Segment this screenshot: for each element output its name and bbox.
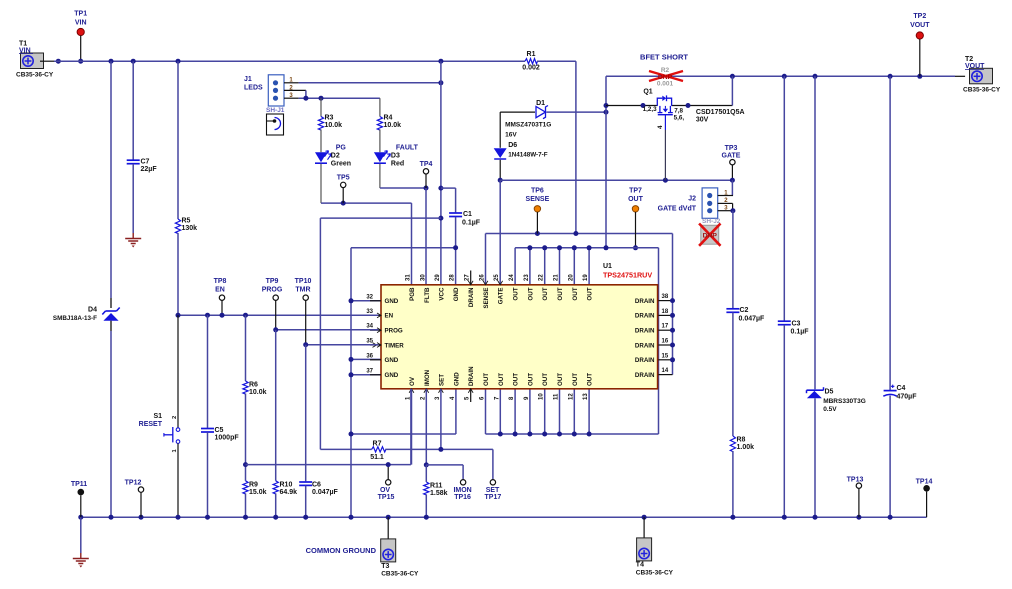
svg-text:D2: D2 xyxy=(331,153,340,160)
wire Q1 right up to VOUT xyxy=(731,76,733,105)
svg-text:J2: J2 xyxy=(688,196,696,203)
svg-text:TP10: TP10 xyxy=(295,278,312,285)
svg-text:CB35-36-CY: CB35-36-CY xyxy=(636,570,674,577)
junction DRAIN bus pin17 xyxy=(670,328,675,333)
svg-text:T4: T4 xyxy=(636,562,644,569)
svg-text:12: 12 xyxy=(568,393,574,400)
testpoint TP2 xyxy=(916,32,923,39)
junction VOUT-C4 xyxy=(888,74,893,79)
wire GATE row xyxy=(500,179,732,181)
arrow pin35 xyxy=(377,343,381,348)
svg-text:DRAIN: DRAIN xyxy=(635,298,655,305)
resistor R9 xyxy=(243,481,248,494)
svg-text:22µF: 22µF xyxy=(141,166,158,173)
testpoint TP15 xyxy=(386,480,391,485)
svg-text:33: 33 xyxy=(366,309,373,315)
transistor Q1 CSD17501Q5A xyxy=(657,98,671,106)
junction EN-C5 xyxy=(205,313,210,318)
junction T1-rail xyxy=(56,59,61,64)
svg-text:470µF: 470µF xyxy=(897,394,918,401)
svg-text:10: 10 xyxy=(539,393,545,400)
junction bottom rail x351 xyxy=(349,515,354,520)
gnd stub pin37 xyxy=(370,374,381,376)
svg-text:MMSZ4703T1G: MMSZ4703T1G xyxy=(505,122,551,129)
svg-text:C4: C4 xyxy=(897,385,906,392)
wire GATE pin25 column xyxy=(499,180,501,285)
wire VCC to R7 branch xyxy=(320,217,441,219)
svg-text:GATE: GATE xyxy=(498,288,505,305)
svg-text:DRAIN: DRAIN xyxy=(635,357,655,364)
J2 pin2 lead xyxy=(718,202,733,204)
arrow pin33 xyxy=(377,313,381,318)
junction bottom rail x80.8 xyxy=(78,515,83,520)
svg-text:37: 37 xyxy=(366,368,373,374)
svg-text:13: 13 xyxy=(583,393,589,400)
capacitor C3 xyxy=(778,320,791,322)
junction TP15-OV xyxy=(386,462,391,467)
svg-text:TPS24751RUV: TPS24751RUV xyxy=(603,271,652,280)
diode D5 MBRS330T3G xyxy=(807,389,824,391)
wire D1 row left xyxy=(500,111,535,113)
J1 pin dots xyxy=(273,80,278,85)
testpoint TP10 xyxy=(303,295,308,300)
wire SET pin3 column xyxy=(440,389,442,450)
junction bottom rail x245.5 xyxy=(243,515,248,520)
svg-text:15.0k: 15.0k xyxy=(249,489,267,496)
arrow pin34 xyxy=(377,328,381,333)
svg-text:GND: GND xyxy=(385,357,399,364)
wire SENSE row xyxy=(486,233,673,235)
J1 pin1 lead xyxy=(284,82,299,84)
testpoint TP13 xyxy=(856,483,861,488)
svg-text:27: 27 xyxy=(465,274,471,281)
wire C3 column xyxy=(783,76,785,320)
junction bottom rail x858.9 xyxy=(856,515,861,520)
wire J1 pin3 row xyxy=(299,97,380,99)
svg-text:GND: GND xyxy=(453,287,460,301)
junction rail-R5 xyxy=(176,59,181,64)
wire VCC to C1 top xyxy=(441,187,456,189)
wire GND column xyxy=(350,248,352,518)
junction bottom rail x784.3 xyxy=(782,515,787,520)
junction bottom rail x732.9 xyxy=(730,515,735,520)
svg-text:TP8: TP8 xyxy=(214,278,227,285)
svg-text:0.1µF: 0.1µF xyxy=(791,329,810,336)
svg-text:TP12: TP12 xyxy=(125,480,142,487)
D4 bottom stub xyxy=(110,321,112,331)
arrow bottom pin2 xyxy=(424,389,429,393)
wire C1 top lead xyxy=(455,188,457,212)
svg-text:TP6: TP6 xyxy=(531,188,544,195)
LED D3 red xyxy=(374,152,386,162)
svg-text:5,6,: 5,6, xyxy=(674,114,685,121)
junction EN-R5 xyxy=(176,313,181,318)
wire C1 bottom / pin28 column xyxy=(455,217,457,285)
testpoint TP11 xyxy=(78,489,85,496)
D4 top stub xyxy=(110,298,112,308)
svg-text:15: 15 xyxy=(662,353,669,359)
junction pin2-pin3 xyxy=(303,96,308,101)
wire DRAIN pin15 lead xyxy=(658,359,673,361)
junction DRAIN bus pin38 xyxy=(670,298,675,303)
svg-text:C6: C6 xyxy=(312,482,321,489)
junction Q1 gate-GATE row xyxy=(663,178,668,183)
wire R3 to D2 xyxy=(320,130,322,153)
resistor R5 xyxy=(175,219,180,234)
junction R6-R9-OV xyxy=(243,462,248,467)
junction bottom rail x815 xyxy=(813,515,818,520)
wire OUT pin24 lead xyxy=(514,248,516,285)
junction rail-C7 xyxy=(131,59,136,64)
svg-text:TP9: TP9 xyxy=(266,278,279,285)
svg-text:VOUT: VOUT xyxy=(910,22,930,29)
junction bottom rail x275.7 xyxy=(273,515,278,520)
wire OUT pin11 lead xyxy=(559,389,561,434)
svg-text:14: 14 xyxy=(662,368,669,374)
junction TP7-OUT bus xyxy=(633,245,638,250)
arrow pin25 xyxy=(498,281,503,285)
junction IMON-R11 xyxy=(424,462,429,467)
wire TP5 lead xyxy=(342,188,344,204)
svg-text:C5: C5 xyxy=(215,427,224,434)
svg-text:VIN: VIN xyxy=(75,20,87,27)
wire PGB pin31 column xyxy=(411,203,413,285)
svg-text:BFET SHORT: BFET SHORT xyxy=(640,53,688,62)
junction OUT bus pin22 xyxy=(542,245,547,250)
wire OUT pin9 lead xyxy=(529,389,531,434)
wire Q1 row left xyxy=(606,105,657,107)
resistor R1 xyxy=(525,59,538,64)
wire VOUT rail / R2 row xyxy=(606,75,955,77)
svg-text:DRAIN: DRAIN xyxy=(635,372,655,379)
junction x606-OUT bus xyxy=(604,245,609,250)
svg-text:T2: T2 xyxy=(965,56,973,63)
svg-text:OUT: OUT xyxy=(557,373,564,386)
svg-text:R4: R4 xyxy=(384,115,393,122)
capacitor C1 xyxy=(449,212,462,214)
testpoint TP4 xyxy=(423,169,428,174)
svg-text:C1: C1 xyxy=(463,211,472,218)
wire C4 bottom xyxy=(889,396,891,518)
svg-text:35: 35 xyxy=(366,339,373,345)
svg-text:IMON: IMON xyxy=(453,487,471,494)
underline VIN xyxy=(19,53,33,55)
junction DRAIN bus pin16 xyxy=(670,343,675,348)
junction C1-pin28 xyxy=(453,245,458,250)
wire TP14 lead xyxy=(926,492,928,518)
wire OUT pin7 lead xyxy=(499,389,501,434)
J2 pin3 lead xyxy=(718,210,733,212)
svg-text:T3: T3 xyxy=(381,563,389,570)
svg-text:SET: SET xyxy=(438,374,445,386)
testpoint TP8 xyxy=(219,295,224,300)
svg-text:32: 32 xyxy=(366,294,373,300)
wire C6 column xyxy=(305,345,307,482)
wire T3 lead xyxy=(387,517,389,539)
wire bottom gnd rail xyxy=(81,516,927,518)
junction rail-VCC xyxy=(438,59,443,64)
wire GND pin32 row xyxy=(351,300,381,302)
wire GND pin4 row xyxy=(351,433,456,435)
IC U1 body xyxy=(381,285,658,389)
DRAIN pin27 stub xyxy=(470,271,472,285)
junction TP1-rail xyxy=(78,59,83,64)
arrow bottom pin3 xyxy=(439,389,444,393)
wire EN row xyxy=(178,314,379,316)
wire C6 bottom xyxy=(305,486,307,518)
junction TP4-FLTB xyxy=(424,186,429,191)
junction bottom rail x207.5 xyxy=(205,515,210,520)
wire OV pin1 column xyxy=(411,389,413,465)
svg-text:OUT: OUT xyxy=(527,287,534,300)
wire R5 upper xyxy=(177,61,179,219)
svg-text:DNP: DNP xyxy=(703,232,718,239)
svg-text:TIMER: TIMER xyxy=(385,342,405,349)
wire J1 pin2 down xyxy=(305,90,307,98)
svg-text:GATE dVdT: GATE dVdT xyxy=(658,206,697,213)
wire TP2 lead xyxy=(919,39,921,76)
wire Q1 row right xyxy=(672,105,733,107)
svg-text:1.00k: 1.00k xyxy=(737,444,755,451)
svg-text:TP15: TP15 xyxy=(378,494,395,501)
testpoint TP5 xyxy=(341,182,346,187)
wire R1 to corner xyxy=(537,60,576,62)
svg-text:C3: C3 xyxy=(792,321,801,328)
wire TP4 lead xyxy=(425,174,427,188)
junction OUT bottom bus pin8 xyxy=(513,432,518,437)
wire OUT pin23 lead xyxy=(529,248,531,285)
wire TP13 lead xyxy=(858,488,860,517)
svg-text:0.001: 0.001 xyxy=(657,81,674,88)
wire OUT pin13 lead xyxy=(588,389,590,434)
svg-text:0.5V: 0.5V xyxy=(823,406,837,413)
svg-text:SH-J2: SH-J2 xyxy=(702,218,721,225)
wire R8 bottom xyxy=(732,451,734,517)
gnd stub pin36 xyxy=(370,359,381,361)
resistor R6 xyxy=(243,381,248,394)
svg-text:EN: EN xyxy=(385,313,394,320)
svg-text:20: 20 xyxy=(568,274,574,281)
junction OUT bus pin23 xyxy=(527,245,532,250)
junction bottom rail x890.1 xyxy=(888,515,893,520)
junction OUT bottom bus pin7 xyxy=(498,432,503,437)
svg-text:34: 34 xyxy=(366,324,373,330)
wire TP9 lead xyxy=(275,300,277,329)
wire VOUT to T2 xyxy=(955,75,965,77)
wire SET corner down xyxy=(492,449,494,479)
svg-text:OUT: OUT xyxy=(587,373,594,386)
svg-text:TMR: TMR xyxy=(295,287,310,294)
svg-text:OUT: OUT xyxy=(527,373,534,386)
DNP cross at R2 xyxy=(649,71,683,81)
svg-text:21: 21 xyxy=(554,274,560,281)
wire S1 top xyxy=(177,315,179,427)
wire D3 to FAULT row xyxy=(379,164,381,188)
wire DRAIN pin18 lead xyxy=(658,314,673,316)
wire R5 to EN row xyxy=(177,233,179,315)
svg-text:29: 29 xyxy=(435,274,441,281)
resistor R4 xyxy=(377,117,382,131)
wire D2 to PG row xyxy=(320,164,322,203)
junction OUT bus pin20 xyxy=(572,245,577,250)
svg-text:DRAIN: DRAIN xyxy=(468,287,475,307)
svg-text:R3: R3 xyxy=(325,115,334,122)
wire R4 to D3 xyxy=(379,130,381,153)
wire TP11 to ground xyxy=(80,517,82,553)
svg-text:64.9k: 64.9k xyxy=(280,489,298,496)
wire OUT pin20 lead xyxy=(573,248,575,285)
svg-text:R2: R2 xyxy=(661,67,670,74)
junction D6-GATE row xyxy=(498,178,503,183)
wire D6 top lead xyxy=(499,112,501,148)
svg-text:TP1: TP1 xyxy=(74,11,87,18)
resistor R10 xyxy=(273,481,278,494)
wire R11 top xyxy=(425,465,427,482)
gnd stub pin32 xyxy=(370,300,381,302)
svg-text:OUT: OUT xyxy=(628,196,644,203)
wire PROG row xyxy=(276,329,379,331)
svg-text:TP17: TP17 xyxy=(485,494,502,501)
svg-text:D5: D5 xyxy=(825,389,834,396)
wire C2 column xyxy=(732,211,734,309)
J2 pin dots xyxy=(707,193,712,198)
wire C5 bottom xyxy=(207,432,209,517)
wire R10 bottom xyxy=(275,493,277,517)
svg-text:U1: U1 xyxy=(603,263,612,270)
capacitor C5 xyxy=(201,428,214,430)
wire DRAIN pin14 lead xyxy=(658,374,673,376)
wire IMON row xyxy=(426,464,463,466)
svg-text:CB35-36-CY: CB35-36-CY xyxy=(963,87,1001,94)
svg-text:SMBJ18A-13-F: SMBJ18A-13-F xyxy=(53,315,97,322)
svg-text:R1: R1 xyxy=(527,51,536,58)
wire GND pin4 column xyxy=(455,389,457,434)
junction pin1-VCC col xyxy=(438,80,443,85)
svg-text:RESET: RESET xyxy=(139,421,163,428)
wire OUT pin22 lead xyxy=(544,248,546,285)
resistor R3 xyxy=(318,117,323,131)
svg-text:10.0k: 10.0k xyxy=(325,122,343,129)
junction bottom rail x426.3 xyxy=(424,515,429,520)
wire VCC branch down to R7 row xyxy=(319,218,321,449)
testpoint TP7 xyxy=(632,206,638,212)
wire OUT pin19 lead xyxy=(588,248,590,285)
svg-text:OUT: OUT xyxy=(483,373,490,386)
arrow pin26 xyxy=(483,281,488,285)
LED D2 green xyxy=(315,152,327,162)
wire C5 column xyxy=(207,315,209,428)
wire C3 bottom xyxy=(783,325,785,517)
svg-text:FLTB: FLTB xyxy=(424,287,431,303)
wire TP3 lead xyxy=(731,165,733,180)
svg-text:R7: R7 xyxy=(373,441,382,448)
arrow pin35 second xyxy=(373,343,377,348)
wire IMON corner down xyxy=(462,465,464,480)
svg-text:16: 16 xyxy=(662,339,669,345)
wire C7 column upper xyxy=(132,61,134,160)
svg-text:1N4148W-7-F: 1N4148W-7-F xyxy=(508,152,548,159)
svg-text:PGB: PGB xyxy=(409,287,416,301)
junction rail-D4 xyxy=(109,59,114,64)
capacitor C7 xyxy=(127,159,140,161)
junction TP10-TMR xyxy=(303,342,308,347)
svg-text:16V: 16V xyxy=(505,132,517,139)
capacitor C2 xyxy=(726,308,739,310)
J1 pin2 lead xyxy=(284,89,306,91)
wire x606 vertical xyxy=(605,76,607,248)
svg-text:Q1: Q1 xyxy=(643,89,652,96)
junction bottom rail x644.1 xyxy=(642,515,647,520)
svg-text:2: 2 xyxy=(172,416,178,419)
wire OV corner up xyxy=(410,389,412,465)
svg-text:D3: D3 xyxy=(391,153,400,160)
wire TP6 lead xyxy=(536,212,538,234)
junction TP6 xyxy=(535,231,540,236)
svg-text:GATE: GATE xyxy=(722,153,741,160)
svg-text:DRAIN: DRAIN xyxy=(468,366,475,386)
testpoint TP14 xyxy=(923,485,930,492)
svg-text:TP11: TP11 xyxy=(71,481,87,488)
junction SET pin3-R7 xyxy=(438,447,443,452)
wire TMR row xyxy=(306,344,379,346)
testpoint TP12 xyxy=(138,487,143,492)
svg-text:30: 30 xyxy=(420,274,426,281)
junction gnd col pin32 xyxy=(349,298,354,303)
svg-text:OUT: OUT xyxy=(498,373,505,386)
wire D4 column upper xyxy=(110,61,112,298)
terminal T4 xyxy=(637,538,652,561)
wire D5 column xyxy=(814,76,816,389)
svg-text:C7: C7 xyxy=(141,159,150,166)
junction R1-SENSE xyxy=(573,231,578,236)
capacitor C4 polarized xyxy=(884,390,897,392)
wire SENSE pin26 column xyxy=(485,234,487,285)
svg-text:10.0k: 10.0k xyxy=(249,389,267,396)
junction VOUT-D5 xyxy=(813,74,818,79)
svg-text:DRAIN: DRAIN xyxy=(635,342,655,349)
svg-text:GND: GND xyxy=(453,372,460,386)
svg-text:GND: GND xyxy=(385,298,399,305)
svg-text:OUT: OUT xyxy=(572,373,579,386)
svg-text:PROG: PROG xyxy=(262,287,283,294)
svg-text:R6: R6 xyxy=(249,382,258,389)
wire TP11 lead xyxy=(80,495,82,517)
wire DRAIN pin38 lead xyxy=(658,300,673,302)
junction R2-Q1 right xyxy=(730,74,735,79)
wire VIN rail xyxy=(54,60,525,62)
svg-text:OUT: OUT xyxy=(513,373,520,386)
wire Q1 gate stem lower xyxy=(664,130,666,180)
svg-text:17: 17 xyxy=(662,324,669,330)
svg-text:VOUT: VOUT xyxy=(965,63,985,70)
wire DRAIN pin17 lead xyxy=(658,329,673,331)
svg-text:7,8: 7,8 xyxy=(674,107,683,114)
wire R6 to OV row xyxy=(245,394,247,481)
resistor R8 xyxy=(730,436,735,452)
wire OUT pin21 lead xyxy=(559,248,561,285)
svg-text:SET: SET xyxy=(486,487,500,494)
svg-text:51.1: 51.1 xyxy=(370,454,384,461)
wire OUT pin6 lead xyxy=(485,389,487,434)
svg-text:38: 38 xyxy=(662,294,669,300)
wire C7 to ground xyxy=(132,164,134,233)
svg-text:D4: D4 xyxy=(88,307,97,314)
svg-text:DNP: DNP xyxy=(658,74,673,81)
svg-text:Red: Red xyxy=(391,160,404,167)
ground at bottom left xyxy=(80,553,82,559)
svg-text:EN: EN xyxy=(215,287,225,294)
svg-text:GND: GND xyxy=(385,372,399,379)
